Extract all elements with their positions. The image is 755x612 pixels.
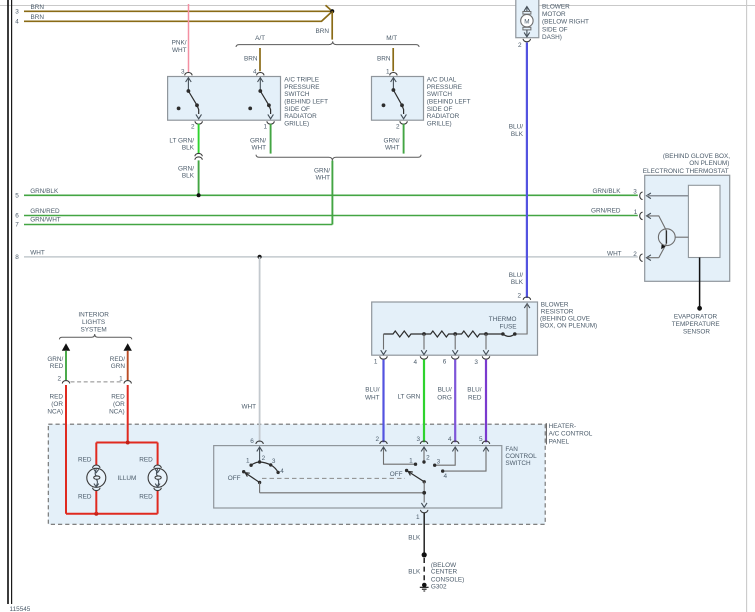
fan switch pin 2 terminal bbox=[375, 436, 417, 466]
svg-text:SIDE OF: SIDE OF bbox=[542, 26, 568, 33]
resistor pin 1 arrow bbox=[381, 334, 387, 355]
svg-text:BRN: BRN bbox=[31, 4, 45, 11]
svg-text:3: 3 bbox=[474, 359, 478, 366]
svg-text:ELECTRONIC THERMOSTAT: ELECTRONIC THERMOSTAT bbox=[643, 168, 729, 175]
svg-text:RED: RED bbox=[78, 456, 92, 463]
svg-text:3: 3 bbox=[181, 69, 185, 76]
fan switch speed wiper bbox=[390, 469, 426, 503]
svg-text:2: 2 bbox=[633, 251, 637, 258]
svg-text:2: 2 bbox=[518, 42, 522, 49]
svg-text:WHT: WHT bbox=[385, 145, 400, 152]
svg-text:WHT: WHT bbox=[30, 250, 45, 257]
svg-text:SYSTEM: SYSTEM bbox=[80, 326, 106, 333]
heater A/C control panel label bbox=[546, 423, 592, 445]
svg-text:M: M bbox=[524, 19, 529, 26]
svg-text:(BEHIND GLOVE: (BEHIND GLOVE bbox=[540, 315, 590, 322]
svg-text:1: 1 bbox=[374, 359, 378, 366]
svg-text:A/C CONTROL: A/C CONTROL bbox=[549, 431, 593, 438]
fan control switch bbox=[214, 446, 502, 508]
node BRN splice bbox=[330, 9, 334, 13]
resistor pin 6 arrow bbox=[452, 334, 458, 355]
thermostat pin 2 connector bbox=[633, 251, 642, 261]
svg-text:WHT: WHT bbox=[365, 395, 380, 402]
svg-text:WHT: WHT bbox=[172, 47, 187, 54]
A/C triple pressure switch bbox=[168, 77, 281, 121]
svg-text:4: 4 bbox=[15, 19, 19, 26]
svg-text:FUSE: FUSE bbox=[499, 324, 516, 331]
A/C dual pressure switch label bbox=[427, 77, 471, 128]
svg-text:6: 6 bbox=[443, 359, 447, 366]
svg-text:TEMPERATURE: TEMPERATURE bbox=[672, 321, 720, 328]
svg-text:THERMO: THERMO bbox=[489, 316, 517, 323]
node lamp top rail bbox=[126, 441, 130, 445]
triple switch contact 3-2 bbox=[177, 78, 202, 119]
svg-text:FAN: FAN bbox=[505, 446, 518, 453]
svg-text:GRILLE): GRILLE) bbox=[284, 120, 309, 127]
interior lights system label bbox=[78, 312, 109, 334]
svg-text:1: 1 bbox=[634, 209, 638, 216]
svg-text:CONTROL: CONTROL bbox=[505, 453, 537, 460]
blower resistor label bbox=[540, 302, 597, 330]
svg-text:OFF: OFF bbox=[390, 471, 403, 478]
wire GRN/WHT from triple pin 1 bbox=[250, 124, 271, 154]
fan control switch label bbox=[505, 446, 537, 467]
fan switch pin 5 terminal bbox=[441, 436, 490, 480]
fan switch pin 1 connector bbox=[416, 510, 428, 521]
svg-text:BLK: BLK bbox=[511, 279, 524, 286]
svg-text:BLK: BLK bbox=[408, 535, 421, 542]
svg-text:SIDE OF: SIDE OF bbox=[284, 106, 310, 113]
wire WHT to fan switch pin 6 bbox=[241, 257, 259, 442]
svg-text:BLK: BLK bbox=[408, 568, 421, 575]
triple switch pin 4 connector bbox=[253, 69, 264, 76]
wire BRN splice to brace bbox=[316, 11, 333, 39]
svg-text:WHT: WHT bbox=[241, 403, 256, 410]
svg-text:2: 2 bbox=[191, 124, 195, 131]
wire 4 BRN bbox=[15, 13, 331, 26]
svg-text:GRN/BLK: GRN/BLK bbox=[30, 188, 59, 195]
inline connector on GRN/BLK wire bbox=[195, 153, 202, 159]
thermostat pin 3 connector bbox=[633, 188, 642, 199]
resistor pin 4 arrow bbox=[421, 334, 427, 355]
mechanical link dashed bbox=[262, 477, 405, 479]
illumination lamp left bbox=[78, 443, 106, 514]
svg-text:4: 4 bbox=[414, 359, 418, 366]
node lamp bottom rail bbox=[94, 512, 98, 516]
svg-text:3: 3 bbox=[272, 458, 276, 465]
svg-text:4: 4 bbox=[444, 473, 448, 480]
svg-text:BLK: BLK bbox=[182, 173, 195, 180]
node fan switch common bbox=[422, 491, 426, 495]
svg-text:LIGHTS: LIGHTS bbox=[82, 319, 105, 326]
wire GRN/RED to interior lights bbox=[47, 351, 66, 380]
svg-text:1: 1 bbox=[386, 69, 390, 76]
wire BLK dashed to ground bbox=[408, 558, 424, 583]
svg-text:SENSOR: SENSOR bbox=[683, 328, 710, 335]
blower motor M1 bbox=[516, 0, 539, 38]
svg-text:BLU/: BLU/ bbox=[365, 386, 379, 393]
svg-text:4: 4 bbox=[280, 468, 284, 475]
wire BRN M/T branch bbox=[377, 48, 393, 71]
svg-text:5: 5 bbox=[479, 436, 483, 443]
svg-text:OFF: OFF bbox=[228, 475, 241, 482]
dual switch contact bbox=[382, 78, 407, 119]
svg-text:RED: RED bbox=[50, 394, 64, 401]
resistor pin 2 arrow bbox=[515, 304, 530, 334]
wire 8 WHT bbox=[15, 250, 638, 262]
svg-text:4: 4 bbox=[448, 436, 452, 443]
svg-text:2: 2 bbox=[262, 455, 266, 462]
svg-text:GRN/BLK: GRN/BLK bbox=[592, 188, 621, 195]
resistor pin 2 connector bbox=[523, 297, 530, 300]
triple switch contact 4-1 bbox=[248, 78, 273, 119]
wire RED (OR NCA) right bbox=[109, 385, 128, 443]
triple switch pin 2 connector bbox=[191, 121, 202, 130]
wire BLU/ORG resistor to fan switch bbox=[437, 360, 455, 443]
ground G302 bbox=[420, 562, 464, 591]
svg-text:3: 3 bbox=[15, 9, 19, 16]
connector pins 2 and 1 interior lights bbox=[57, 376, 131, 384]
svg-text:1: 1 bbox=[409, 457, 413, 464]
svg-text:GRN: GRN bbox=[111, 363, 126, 370]
resistor pin 3 arrow bbox=[483, 334, 489, 355]
svg-text:SWITCH: SWITCH bbox=[505, 460, 531, 467]
node resistor pin 6 bbox=[453, 332, 457, 336]
resistor element R2 bbox=[424, 331, 455, 337]
svg-text:G302: G302 bbox=[431, 584, 447, 591]
wire RED (OR NCA) left bbox=[47, 385, 66, 514]
interior lights brace bbox=[59, 334, 131, 339]
wire GRN/BLK to wire 5 bbox=[178, 160, 199, 195]
blower motor label bbox=[542, 4, 589, 41]
resistor element R3 bbox=[455, 331, 503, 337]
svg-text:(BEHIND GLOVE BOX,: (BEHIND GLOVE BOX, bbox=[663, 153, 730, 160]
svg-text:PNK/: PNK/ bbox=[172, 39, 187, 46]
svg-text:115545: 115545 bbox=[10, 606, 31, 612]
resistor element R1 bbox=[384, 331, 425, 337]
wire GRN/WHT to wire 7 bbox=[314, 161, 332, 225]
svg-text:(OR: (OR bbox=[113, 401, 125, 408]
transistor Q1 bbox=[658, 229, 688, 258]
svg-text:5: 5 bbox=[15, 193, 19, 200]
wire LT GRN/BLK from triple pin 2 bbox=[169, 124, 198, 154]
svg-text:ILLUM: ILLUM bbox=[117, 475, 136, 482]
svg-text:GRN/: GRN/ bbox=[314, 168, 330, 175]
wire 3 BRN bbox=[15, 4, 330, 16]
svg-text:GRN/: GRN/ bbox=[250, 138, 266, 145]
fan switch pin 1 arrow bbox=[421, 503, 427, 507]
node wire 8 splice bbox=[258, 255, 262, 259]
svg-text:PANEL: PANEL bbox=[549, 438, 570, 445]
svg-text:GRILLE): GRILLE) bbox=[427, 120, 452, 127]
svg-text:BRN: BRN bbox=[244, 56, 258, 63]
electronic thermostat bbox=[645, 175, 730, 281]
node wire 5 splice bbox=[197, 193, 201, 197]
arrow to interior lights left bbox=[62, 343, 70, 351]
svg-text:RED: RED bbox=[78, 493, 92, 500]
svg-text:A/C TRIPLE: A/C TRIPLE bbox=[284, 77, 319, 84]
svg-text:GRN/RED: GRN/RED bbox=[591, 208, 621, 215]
evaporator temperature sensor bbox=[672, 306, 720, 335]
arrow to interior lights right bbox=[124, 343, 132, 351]
svg-text:1: 1 bbox=[246, 458, 250, 465]
svg-text:NCA): NCA) bbox=[109, 408, 125, 415]
svg-text:BLK: BLK bbox=[182, 145, 195, 152]
wire 7 GRN/WHT bbox=[15, 217, 332, 229]
heater A/C control panel bbox=[48, 424, 545, 524]
svg-text:6: 6 bbox=[250, 438, 254, 445]
node resistor pin 3 bbox=[484, 332, 488, 336]
fan switch illumination rotary bbox=[228, 447, 285, 493]
svg-text:BLU/: BLU/ bbox=[467, 386, 481, 393]
wire BLU/WHT resistor to fan switch bbox=[365, 360, 384, 443]
blower motor pin 2 connector bbox=[518, 39, 531, 49]
svg-text:(BELOW RIGHT: (BELOW RIGHT bbox=[542, 19, 589, 26]
wire BLU/BLK blower motor to resistor bbox=[509, 43, 527, 300]
svg-text:A/C DUAL: A/C DUAL bbox=[427, 77, 457, 84]
svg-text:CENTER: CENTER bbox=[431, 569, 458, 576]
svg-text:RADIATOR: RADIATOR bbox=[284, 113, 317, 120]
wire BLU/RED resistor to fan switch bbox=[467, 360, 486, 443]
svg-text:(BEHIND LEFT: (BEHIND LEFT bbox=[284, 99, 328, 106]
svg-text:BRN: BRN bbox=[377, 56, 391, 63]
svg-text:GRN/: GRN/ bbox=[178, 166, 194, 173]
svg-text:PRESSURE: PRESSURE bbox=[284, 84, 319, 91]
svg-text:DASH): DASH) bbox=[542, 34, 562, 41]
wire PNK/WHT bbox=[172, 4, 189, 72]
svg-text:GRN/RED: GRN/RED bbox=[30, 208, 60, 215]
svg-text:1: 1 bbox=[416, 514, 420, 521]
svg-text:EVAPORATOR: EVAPORATOR bbox=[674, 314, 718, 321]
svg-text:PRESSURE: PRESSURE bbox=[427, 84, 462, 91]
svg-text:2: 2 bbox=[375, 436, 379, 443]
svg-text:7: 7 bbox=[15, 222, 19, 229]
svg-text:RED: RED bbox=[50, 363, 64, 370]
svg-text:BRN: BRN bbox=[31, 14, 45, 21]
svg-text:3: 3 bbox=[416, 436, 420, 443]
svg-text:4: 4 bbox=[253, 69, 257, 76]
node resistor pin 4 bbox=[422, 332, 426, 336]
svg-text:NCA): NCA) bbox=[47, 408, 63, 415]
svg-text:GRN/: GRN/ bbox=[384, 138, 400, 145]
svg-text:3: 3 bbox=[633, 188, 637, 195]
A/C triple pressure switch label bbox=[284, 77, 328, 128]
svg-text:BRN: BRN bbox=[316, 28, 330, 35]
svg-text:BLU/: BLU/ bbox=[509, 124, 523, 131]
svg-text:RADIATOR: RADIATOR bbox=[427, 113, 460, 120]
resistor bottom pin connectors bbox=[374, 356, 490, 366]
svg-text:2: 2 bbox=[517, 293, 521, 300]
svg-text:SWITCH: SWITCH bbox=[427, 91, 453, 98]
thermostat pin 2 input bbox=[647, 255, 659, 261]
svg-text:RED: RED bbox=[111, 394, 125, 401]
svg-text:3: 3 bbox=[437, 459, 441, 466]
wire RED lamp bottom rail bbox=[66, 513, 158, 515]
svg-text:6: 6 bbox=[15, 213, 19, 220]
wire LT GRN resistor to fan switch bbox=[397, 360, 424, 443]
A/C dual pressure switch bbox=[372, 77, 424, 121]
thermo fuse F1 bbox=[489, 316, 517, 336]
wire GRN/WHT from dual pin 2 bbox=[384, 124, 404, 154]
svg-text:(BEHIND LEFT: (BEHIND LEFT bbox=[427, 99, 471, 106]
node BLK splice bbox=[422, 552, 427, 557]
svg-text:1: 1 bbox=[263, 124, 267, 131]
svg-text:INTERIOR: INTERIOR bbox=[78, 312, 109, 319]
dual switch pin 2 connector bbox=[396, 121, 407, 130]
svg-text:2: 2 bbox=[57, 376, 61, 383]
thermostat internal regulator bbox=[688, 185, 720, 257]
svg-text:BLU/: BLU/ bbox=[438, 386, 452, 393]
svg-text:A/T: A/T bbox=[255, 35, 265, 42]
svg-text:RED: RED bbox=[139, 456, 153, 463]
svg-text:WHT: WHT bbox=[251, 145, 266, 152]
fan switch pin 6 connector bbox=[250, 438, 263, 445]
svg-text:MOTOR: MOTOR bbox=[542, 11, 566, 18]
svg-text:M/T: M/T bbox=[386, 35, 397, 42]
wire 6 GRN/RED bbox=[15, 208, 638, 220]
svg-text:BOX, ON PLENUM): BOX, ON PLENUM) bbox=[540, 322, 597, 329]
thermostat pin 1 connector bbox=[634, 209, 643, 219]
svg-text:8: 8 bbox=[15, 254, 19, 261]
wire fan switch common link bbox=[260, 492, 425, 494]
svg-text:LT GRN/: LT GRN/ bbox=[169, 138, 194, 145]
illumination lamp right bbox=[139, 443, 167, 514]
svg-text:CONSOLE): CONSOLE) bbox=[431, 577, 464, 584]
wire to evaporator temperature sensor bbox=[699, 258, 701, 307]
thermostat pin 3 input bbox=[647, 193, 689, 199]
triple switch pin 1 connector bbox=[263, 121, 274, 130]
splice brace GRN/WHT bbox=[256, 155, 421, 161]
svg-text:WHT: WHT bbox=[607, 250, 622, 257]
svg-text:RED: RED bbox=[468, 395, 482, 402]
svg-text:BLK: BLK bbox=[511, 131, 524, 138]
svg-text:ORG: ORG bbox=[437, 395, 452, 402]
svg-text:LT GRN: LT GRN bbox=[397, 394, 420, 401]
svg-text:HEATER-: HEATER- bbox=[549, 423, 577, 430]
svg-text:RED: RED bbox=[139, 493, 153, 500]
svg-text:(OR: (OR bbox=[51, 401, 63, 408]
svg-text:ON PLENUM): ON PLENUM) bbox=[689, 160, 729, 167]
svg-text:RED/: RED/ bbox=[110, 356, 125, 363]
svg-text:GRN/WHT: GRN/WHT bbox=[30, 217, 61, 224]
svg-text:BLOWER: BLOWER bbox=[542, 4, 570, 11]
splice brace A/T M/T bbox=[236, 35, 419, 47]
fan switch pin 3 terminal bbox=[416, 436, 430, 464]
svg-text:WHT: WHT bbox=[315, 175, 330, 182]
svg-text:BLU/: BLU/ bbox=[509, 272, 523, 279]
dual switch pin 1 connector bbox=[386, 69, 397, 76]
blower resistor bbox=[372, 302, 538, 355]
svg-text:2: 2 bbox=[396, 124, 400, 131]
wire 5 GRN/BLK bbox=[15, 188, 638, 200]
electronic thermostat label bbox=[643, 153, 730, 175]
svg-text:1: 1 bbox=[119, 376, 123, 383]
wire BLK bbox=[408, 513, 424, 555]
wire BRN A/T branch bbox=[244, 48, 260, 71]
fan switch pin 4 terminal bbox=[433, 436, 459, 467]
wire RED/GRN to interior lights bbox=[110, 351, 128, 380]
svg-text:SIDE OF: SIDE OF bbox=[427, 106, 453, 113]
wire RED lamp top rail bbox=[96, 442, 157, 444]
svg-text:2: 2 bbox=[426, 455, 430, 462]
triple switch pin 3 connector bbox=[181, 69, 192, 76]
svg-text:GRN/: GRN/ bbox=[47, 356, 63, 363]
thermostat pin 1 input bbox=[647, 213, 667, 231]
svg-text:SWITCH: SWITCH bbox=[284, 91, 310, 98]
